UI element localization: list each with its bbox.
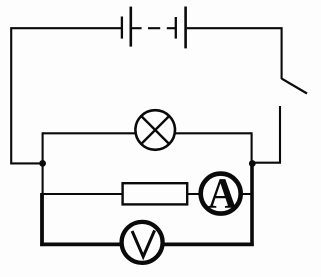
- wire: [42, 132, 44, 194]
- ammeter A: [201, 174, 241, 214]
- battery cell 2: [167, 7, 186, 49]
- battery dashed link: [148, 27, 160, 29]
- wire: [250, 163, 254, 246]
- lamp: [135, 110, 175, 150]
- wire: [251, 132, 253, 165]
- wire: [43, 193, 252, 195]
- wire: [187, 28, 282, 79]
- wire: [252, 106, 280, 163]
- wire: [11, 28, 121, 163]
- wire: [40, 242, 254, 246]
- junction: [39, 160, 46, 167]
- voltmeter V: [122, 222, 163, 263]
- wire: [40, 193, 44, 246]
- junction: [249, 160, 256, 167]
- wire: [43, 132, 252, 134]
- switch S (open blade): [282, 79, 307, 94]
- battery cell 1: [122, 7, 142, 47]
- resistor R: [123, 183, 188, 204]
